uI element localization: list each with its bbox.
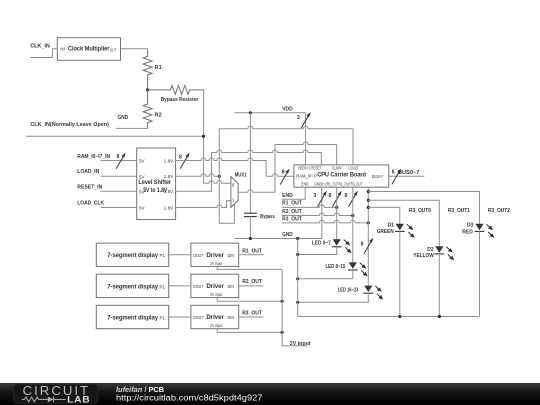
wire CLK_IN to clock multiplier input: [30, 49, 57, 58]
svg-text:LAB: LAB: [67, 394, 90, 404]
junction 2V rail row3: [281, 331, 284, 334]
wire V2 bypass cap net vertical (upper): [249, 113, 251, 213]
svg-text:Driver: Driver: [206, 314, 224, 321]
wire GND rail under CPU: [234, 187, 321, 238]
svg-text:2V input: 2V input: [210, 261, 222, 266]
driver U5 box: [191, 274, 239, 297]
svg-text:LED 0~7: LED 0~7: [312, 241, 331, 247]
svg-text:LOAD_IN: LOAD_IN: [77, 169, 99, 175]
LED array LED 0~7: [332, 239, 352, 253]
wire clock multiplier output to R1: [121, 49, 148, 50]
svg-text:lufeifan / PCB: lufeifan / PCB: [116, 385, 164, 394]
wire LED return rail vertical: [297, 239, 299, 317]
svg-text:CLK_IN: CLK_IN: [30, 44, 50, 50]
svg-text:1.8V: 1.8V: [164, 158, 174, 163]
wire DS3 to driver U6: [169, 316, 191, 318]
wire V3 LOAD net vertical: [219, 129, 234, 223]
wire U4 2V pin down: [217, 266, 282, 269]
svg-text:DOUT: DOUT: [193, 284, 203, 289]
wire CLK_IN open stub: [26, 135, 204, 137]
svg-text:DIN: DIN: [228, 315, 235, 320]
wire R1_OUT net (hops GND0~2 bus): [282, 205, 337, 208]
driver U4 box: [191, 243, 239, 266]
svg-text:END: END: [282, 193, 293, 199]
junction R1_OUT to R1 bus: [335, 206, 338, 209]
svg-text:RAM_I0~I7: RAM_I0~I7: [296, 174, 317, 179]
svg-text:R2: R2: [155, 113, 162, 119]
svg-text:R2_OUT: R2_OUT: [242, 279, 262, 285]
wire GND stub from R2 bottom: [116, 127, 147, 129]
wire U5 DIN stub R2_OUT: [239, 285, 264, 287]
wire V1 bypass output down to mux input 0: [203, 90, 205, 183]
wire D2 cathode to rail: [438, 254, 440, 317]
svg-text:Clock Multiplier: Clock Multiplier: [68, 45, 110, 52]
svg-text:8: 8: [117, 154, 120, 160]
wire row1 RAM bus into CPU (hops V5): [266, 174, 294, 176]
wire U6 2V pin down: [217, 329, 282, 333]
wire R3 bus vertical to LED 16~23: [367, 187, 369, 286]
junction GND rail to V2: [249, 237, 252, 240]
svg-text:R3_OUT: R3_OUT: [242, 310, 262, 316]
logo diode symbol: [48, 397, 54, 403]
svg-text:7-segment display: 7-segment display: [107, 314, 158, 321]
junction R3_OUT to R3 bus: [367, 221, 370, 224]
junction row2 to V3: [218, 175, 221, 178]
wire RESET row to CPU RESET pin (hops V3,V2,V5,VDD riser): [212, 150, 322, 165]
wire D1 cathode to rail: [399, 231, 401, 316]
driver U6 box: [191, 305, 239, 328]
svg-text:GND: GND: [282, 232, 293, 238]
wire LED bottom rail: [298, 316, 479, 318]
junction R2_OUT to R2 bus: [351, 214, 354, 217]
svg-text:5V to 1.8V: 5V to 1.8V: [143, 187, 168, 194]
wire END from CPU: [282, 187, 306, 199]
wire mux input 0 from V1 (hops V4,V3): [204, 181, 231, 184]
svg-text:5V: 5V: [139, 206, 145, 211]
svg-text:http://circuitlab.com/c8d5kpdt: http://circuitlab.com/c8d5kpdt4g927: [116, 394, 263, 403]
wire R2_OUT net (hops GND0~2, R1 buses): [282, 213, 353, 215]
LED D2: [434, 246, 454, 260]
svg-text:CLK_IN(Normally Leave Open): CLK_IN(Normally Leave Open): [30, 122, 109, 128]
junction D1 to rail: [398, 315, 401, 318]
wire mux output to V5 riser (hops V2): [238, 145, 275, 193]
svg-text:8: 8: [329, 193, 332, 199]
svg-text:DIN: DIN: [228, 253, 235, 258]
svg-text:BUS0~7: BUS0~7: [398, 170, 419, 176]
junction GND rail to LED return: [296, 237, 299, 240]
LED array LED 8~15: [348, 262, 368, 276]
logo tile: [14, 384, 98, 403]
svg-text:GREEN: GREEN: [377, 229, 394, 235]
svg-text:R2_OUT: R2_OUT: [282, 209, 302, 215]
svg-text:8: 8: [392, 169, 395, 175]
svg-text:8: 8: [282, 170, 285, 176]
CPU carrier board U3 box: [294, 165, 389, 187]
footer bar: [0, 383, 540, 405]
junction LED 16~23 return: [296, 301, 299, 304]
svg-text:Bypass: Bypass: [260, 214, 275, 220]
node junction R1 / bypass / R2: [146, 88, 149, 91]
wire RESET_IN to level shifter: [101, 190, 137, 192]
svg-text:R1_OUT: R1_OUT: [327, 181, 339, 186]
junction R3 bus tap D2: [367, 199, 370, 202]
level shifter U2 box: [137, 148, 176, 220]
junction LED 8~15 return: [296, 277, 299, 280]
wire LOAD_CLK to level shifter: [101, 207, 137, 209]
junction dot open stub to V1: [202, 135, 205, 138]
svg-text:P1: P1: [160, 315, 166, 320]
svg-text:D1: D1: [388, 223, 394, 229]
wire row4 LOAD_CLK from shifter to mux input 1 (hops V3): [176, 201, 231, 208]
wire U6 DIN stub R3_OUT: [239, 316, 264, 318]
wire V2 below cap to GND rail: [249, 217, 251, 239]
junction LED 0~7 return: [296, 253, 299, 256]
svg-text:R3_OUT2: R3_OUT2: [488, 208, 510, 214]
resistor R1: [143, 50, 152, 90]
wire R3_OUT0 tap to D1: [368, 207, 400, 223]
wire R2 bus vertical to LED 8~15 (hops R3_OUT handled on horiz): [352, 187, 354, 262]
svg-text:R2_OUT: R2_OUT: [339, 181, 351, 186]
svg-text:R3_OUT1: R3_OUT1: [448, 208, 470, 214]
svg-text:DIN: DIN: [228, 284, 235, 289]
LED D3: [475, 224, 495, 238]
svg-text:P1: P1: [160, 253, 166, 258]
svg-text:GND: GND: [118, 115, 129, 121]
junction R3 bus tap D3: [367, 190, 370, 193]
svg-text:2V input: 2V input: [210, 292, 222, 297]
svg-text:GND0~2: GND0~2: [314, 181, 327, 186]
svg-text:D3: D3: [467, 223, 473, 229]
svg-text:R1_OUT: R1_OUT: [242, 248, 262, 254]
svg-text:7-segment display: 7-segment display: [107, 283, 158, 290]
wire U5 2V pin down: [217, 298, 282, 302]
svg-text:R3_OUT: R3_OUT: [282, 217, 302, 223]
wire R1 bus vertical to LED 0~7: [336, 187, 338, 239]
wire C mux clock to CPU CLKIN pin (hops VDD riser): [275, 142, 337, 165]
svg-text:8: 8: [361, 242, 364, 248]
svg-text:Driver: Driver: [206, 283, 224, 290]
svg-text:MUX1: MUX1: [235, 172, 247, 178]
junction 2V rail row2: [281, 300, 284, 303]
mux MUX1 body: [231, 177, 238, 208]
7-segment display DS1 box: [96, 243, 168, 266]
svg-text:8: 8: [345, 193, 348, 199]
LED array LED 16~23: [363, 286, 383, 300]
svg-text:2V input: 2V input: [210, 323, 222, 328]
svg-text:CLKIN: CLKIN: [332, 166, 342, 171]
LED D1: [395, 224, 415, 238]
clock multiplier U1 box: [57, 38, 120, 61]
svg-text:RESET: RESET: [311, 166, 321, 171]
svg-text:3: 3: [314, 193, 317, 199]
wire U4 DIN stub R1_OUT: [239, 254, 264, 256]
junction VDD rail to V2: [249, 111, 252, 114]
svg-text:LED 16~23: LED 16~23: [338, 288, 359, 294]
svg-text:BUS0~7: BUS0~7: [372, 174, 384, 179]
7-segment display DS2 box: [96, 274, 168, 297]
junction D2 to rail: [438, 315, 441, 318]
svg-text:3: 3: [297, 115, 300, 121]
svg-text:CPU Carrier Board: CPU Carrier Board: [317, 172, 366, 179]
wire 2V input rail: [282, 269, 307, 345]
bypass resistor (horizontal): [148, 86, 204, 95]
svg-text:R1: R1: [155, 65, 162, 71]
svg-text:LOAD_CLK: LOAD_CLK: [77, 200, 104, 206]
svg-text:8: 8: [179, 154, 182, 160]
svg-text:R3_OUT0: R3_OUT0: [409, 208, 431, 214]
wire VDD riser to CPU VDD0~2 pin: [305, 113, 307, 165]
svg-text:VDD0~2: VDD0~2: [298, 166, 311, 171]
wire LED 16~23 cathode return: [298, 293, 369, 302]
svg-text:END: END: [301, 181, 309, 186]
svg-text:R3_OUT: R3_OUT: [351, 181, 363, 186]
svg-text:LED 8~15: LED 8~15: [326, 264, 346, 270]
svg-text:Bypass Resistor: Bypass Resistor: [161, 97, 199, 103]
svg-text:Driver: Driver: [206, 252, 224, 259]
wire R3_OUT net (hops GND0~2, R1, R2 buses): [282, 220, 369, 223]
wire LOAD_IN to level shifter: [101, 175, 137, 177]
wire DS1 to driver U4: [169, 254, 191, 256]
wire R3_OUT1 tap to D2: [368, 200, 439, 246]
svg-text:LOAD: LOAD: [348, 166, 358, 171]
svg-text:RESET_IN: RESET_IN: [77, 185, 102, 191]
wire BUS0~7 stub: [389, 175, 425, 177]
svg-text:1.8V: 1.8V: [164, 205, 174, 210]
wire DS2 to driver U5: [169, 285, 191, 287]
svg-text:Level Shifter: Level Shifter: [138, 179, 171, 186]
junction R3 bus tap D1: [367, 206, 370, 209]
wire row2 LOAD_IN from shifter (hops V1,V4): [176, 174, 220, 176]
resistor R2: [143, 90, 152, 128]
svg-text:R1_OUT: R1_OUT: [282, 201, 302, 207]
svg-text:7-segment display: 7-segment display: [107, 252, 158, 259]
wire row3 RESET_IN from shifter to V4 riser: [176, 153, 212, 192]
wire VDD rail: [235, 112, 306, 114]
svg-text:2V input: 2V input: [290, 341, 311, 347]
svg-text:DOUT: DOUT: [193, 253, 203, 258]
svg-text:OUT: OUT: [110, 48, 116, 53]
wire row1 RAM bus from shifter (hops V1,V4,V3,V2): [176, 158, 267, 176]
capacitor Bypass: [244, 213, 257, 216]
wire LED 0~7 cathode return: [298, 247, 337, 255]
svg-text:5V: 5V: [139, 159, 145, 164]
7-segment display DS3 box: [96, 305, 168, 328]
svg-text:RED: RED: [462, 230, 473, 236]
logo resistor-diode squiggle: [22, 397, 42, 402]
svg-text:YELLOW: YELLOW: [413, 253, 434, 259]
svg-text:IN: IN: [60, 47, 65, 52]
wire R3_OUT2 tap to D3: [368, 192, 479, 224]
svg-text:D2: D2: [427, 247, 433, 253]
wire LED 8~15 cathode return: [298, 270, 353, 279]
svg-text:RAM_I0~I7_IN: RAM_I0~I7_IN: [77, 154, 110, 160]
svg-text:VDD: VDD: [282, 106, 293, 112]
wire E LOAD_IN to CPU LOAD pin (hops V2, VDD riser): [219, 126, 353, 165]
wire RAM_I0~I7_IN to level shifter: [101, 160, 137, 162]
svg-text:P1: P1: [160, 284, 166, 289]
wire D3 cathode to rail: [479, 231, 481, 316]
svg-text:DOUT: DOUT: [193, 315, 203, 320]
